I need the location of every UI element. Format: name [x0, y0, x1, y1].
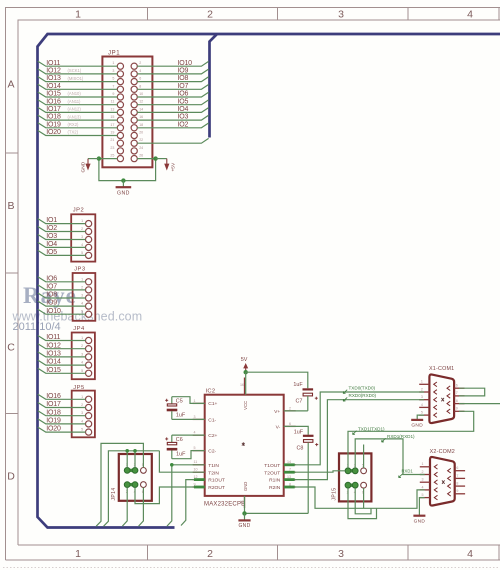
wire IO15 (bus tap to JP4 pin 5) — [38, 367, 86, 374]
wire IO8 (bus tap to JP3 pin 3) — [38, 292, 86, 299]
svg-text:17: 17 — [110, 123, 114, 127]
capacitor C5 — [165, 397, 205, 420]
svg-text:IO9: IO9 — [178, 68, 189, 75]
svg-text:IO13: IO13 — [46, 351, 61, 358]
wire IO6 (JP1 pin to bus tap) — [137, 91, 209, 98]
svg-text:IO17: IO17 — [46, 401, 61, 408]
svg-text:IO9: IO9 — [46, 300, 57, 307]
svg-text:+5V: +5V — [171, 162, 177, 171]
wire JP15 pin6 drop — [363, 488, 365, 508]
wire IO3 (bus tap to JP2 pin 3) — [38, 233, 86, 240]
wire IO19 (bus tap to JP1 pin) — [38, 121, 118, 128]
wire IC2 GND net — [245, 496, 309, 514]
svg-text:6: 6 — [289, 422, 291, 426]
svg-text:2: 2 — [421, 387, 423, 391]
connector JP3 — [73, 267, 96, 321]
svg-text:IO14: IO14 — [46, 359, 61, 366]
svg-text:D: D — [7, 471, 15, 483]
svg-text:5: 5 — [112, 77, 114, 81]
ground symbol GND (X2) — [413, 498, 425, 525]
svg-text:JP3: JP3 — [74, 267, 86, 273]
svg-text:1uF: 1uF — [176, 452, 186, 458]
op-amp/IC U1: IC2 MAX232 body — [204, 389, 284, 508]
svg-text:C2+: C2+ — [208, 433, 217, 439]
svg-text:1: 1 — [75, 548, 81, 560]
wire net B: T2IN / JP14 pins 1,3 to bus — [104, 451, 160, 526]
svg-text:IO16: IO16 — [46, 98, 61, 105]
bus B2 (vertical right of JP1) — [210, 34, 218, 138]
wire X1 pin8 to edge — [459, 403, 500, 405]
wire IO7 (bus tap to JP3 pin 2) — [38, 284, 86, 291]
junction under JP1 right — [153, 156, 157, 160]
svg-text:C: C — [7, 342, 15, 354]
wire IO16 (bus tap to JP5 pin 1) — [38, 393, 86, 400]
connector JP14 (jumper block) — [111, 454, 152, 501]
svg-text:(TX2): (TX2) — [68, 130, 79, 135]
svg-text:IO3: IO3 — [46, 233, 57, 240]
wire IO12 (bus tap to JP4 pin 2) — [38, 342, 86, 349]
svg-text:3: 3 — [112, 69, 114, 73]
svg-text:C5: C5 — [176, 398, 183, 404]
wire IO11 (bus tap to JP4 pin 1) — [38, 334, 86, 341]
connector X2-COM2 (DB9) — [420, 449, 465, 506]
svg-text:7: 7 — [112, 84, 114, 88]
svg-text:IO2: IO2 — [178, 121, 189, 128]
wire IO7 (JP1 pin to bus tap) — [137, 83, 209, 90]
svg-text:8: 8 — [139, 84, 141, 88]
svg-text:5: 5 — [194, 446, 196, 450]
wire T2OUT (IC2 to JP15 pin1) — [284, 471, 345, 472]
svg-text:5: 5 — [81, 251, 83, 255]
wire JP14 pin1 drop — [126, 451, 128, 468]
svg-text:JP5: JP5 — [73, 385, 85, 391]
svg-text:IO7: IO7 — [46, 284, 57, 291]
svg-text:14: 14 — [139, 107, 143, 111]
svg-text:R2OUT: R2OUT — [208, 485, 225, 491]
wire IO8 (JP1 pin to bus tap) — [137, 75, 209, 82]
label RXD0 — [343, 393, 376, 401]
svg-text:6: 6 — [139, 77, 141, 81]
svg-text:IO4: IO4 — [178, 106, 189, 113]
svg-text:T1OUT: T1OUT — [264, 463, 280, 469]
wire RXD1 (JP15 pin3 to X2 pin2) — [355, 439, 425, 475]
svg-text:(MISO1): (MISO1) — [68, 76, 84, 81]
svg-text:15: 15 — [240, 500, 244, 504]
wire IO10 (JP1 pin to bus tap) — [137, 60, 209, 67]
wire R1OUT (IC2 to bus) — [181, 480, 205, 526]
svg-text:T2IN: T2IN — [208, 470, 219, 476]
wire IO19 (bus tap to JP5 pin 4) — [38, 418, 86, 425]
svg-text:2: 2 — [81, 403, 83, 407]
label RXD1 at X2 pin — [399, 469, 414, 478]
svg-text:8: 8 — [456, 481, 458, 485]
svg-text:1uF: 1uF — [176, 412, 186, 418]
wire IO11 (bus tap to JP1 pin) — [38, 60, 118, 67]
frame column numbers — [75, 9, 473, 561]
wire IO13 (bus tap to JP1 pin) — [38, 75, 118, 82]
wire T2IN (net B to IC2) — [159, 451, 204, 472]
wire JP15 pin5 stub — [363, 445, 365, 468]
svg-text:26: 26 — [139, 154, 143, 158]
svg-text:5: 5 — [421, 411, 423, 415]
svg-text:(SCK1): (SCK1) — [68, 68, 82, 73]
wire JP15 pin4 loop — [355, 488, 371, 514]
svg-text:2: 2 — [289, 406, 291, 410]
svg-text:2: 2 — [81, 285, 83, 289]
svg-text:IO11: IO11 — [46, 334, 60, 341]
svg-text:T2OUT: T2OUT — [264, 470, 280, 476]
svg-text:JP15: JP15 — [331, 488, 337, 501]
wire IO18 (bus tap to JP5 pin 3) — [38, 409, 86, 416]
wire IO5 (bus tap to JP2 pin 5) — [38, 249, 86, 256]
svg-text:C2-: C2- — [208, 449, 216, 455]
connector JP1 — [102, 51, 152, 168]
svg-text:IC2: IC2 — [206, 389, 216, 395]
wire JP15 pin2 loop — [348, 488, 377, 518]
svg-text:TXD1(TXD1): TXD1(TXD1) — [358, 426, 385, 431]
svg-text:20: 20 — [139, 131, 143, 135]
svg-text:GND: GND — [238, 523, 250, 529]
svg-text:IO15: IO15 — [46, 91, 61, 98]
svg-text:3: 3 — [338, 548, 344, 560]
svg-text:1: 1 — [81, 219, 83, 223]
svg-text:R2IN: R2IN — [269, 485, 281, 491]
ground symbol GND (X1) — [411, 415, 424, 429]
svg-text:IO5: IO5 — [46, 249, 57, 256]
svg-text:B: B — [7, 200, 14, 212]
svg-text:IO8: IO8 — [46, 292, 57, 299]
capacitor C6 — [165, 435, 205, 459]
svg-text:IO18: IO18 — [46, 409, 61, 416]
svg-text:7: 7 — [456, 391, 458, 395]
svg-text:GND: GND — [411, 423, 423, 429]
svg-text:GND: GND — [81, 161, 87, 172]
svg-text:8: 8 — [456, 399, 458, 403]
svg-text:JP14: JP14 — [111, 488, 117, 501]
ground symbol GND (under JP1) — [116, 181, 132, 197]
svg-text:10: 10 — [194, 468, 198, 472]
svg-text:4: 4 — [467, 548, 473, 560]
svg-text:10: 10 — [139, 92, 143, 96]
svg-text:TXD0(TXD0): TXD0(TXD0) — [349, 385, 376, 390]
wire IO13 (bus tap to JP4 pin 3) — [38, 351, 86, 358]
wire IO4 (JP1 pin to bus tap) — [137, 106, 209, 113]
supply arrow GND (left of JP1 bottom) — [81, 159, 99, 173]
junction under JP1 left — [97, 156, 101, 160]
svg-text:1: 1 — [421, 380, 423, 384]
svg-text:RXD0(RXD0): RXD0(RXD0) — [349, 393, 377, 398]
wire IO20 (bus tap to JP5 pin 5) — [38, 426, 86, 433]
svg-text:T1IN: T1IN — [208, 463, 219, 469]
wire T1IN (C6/IC2 to bus) — [167, 465, 205, 526]
capacitor C8 — [284, 426, 319, 513]
svg-text:4: 4 — [139, 69, 141, 73]
svg-text:3: 3 — [81, 352, 83, 356]
svg-text:2: 2 — [139, 61, 141, 65]
svg-text:1: 1 — [75, 9, 81, 21]
label TXD1 — [353, 426, 385, 434]
svg-text:5: 5 — [422, 493, 424, 497]
svg-text:IO13: IO13 — [46, 75, 61, 82]
svg-text:A: A — [7, 79, 14, 91]
svg-text:3: 3 — [421, 395, 423, 399]
svg-text:11: 11 — [111, 100, 115, 104]
svg-text:4: 4 — [81, 302, 83, 306]
wire IO20 (bus tap to JP1 pin) — [38, 129, 118, 136]
svg-text:VCC: VCC — [243, 401, 248, 410]
svg-text:3: 3 — [81, 294, 83, 298]
svg-text:IO17: IO17 — [46, 106, 61, 113]
IC2 pin stubs and numbers — [193, 378, 296, 509]
svg-text:4: 4 — [81, 419, 83, 423]
wire GND loop under JP1 — [99, 159, 156, 181]
connector JP15 (jumper block) — [331, 453, 371, 501]
wire IO18 (bus tap to JP1 pin) — [38, 114, 118, 121]
svg-text:(AN13): (AN13) — [68, 114, 82, 119]
connector X1-COM1 (DB9) — [419, 366, 464, 423]
svg-text:4: 4 — [81, 361, 83, 365]
svg-text:1uF: 1uF — [293, 382, 303, 388]
svg-text:6: 6 — [456, 384, 458, 388]
connector JP2 — [71, 208, 95, 262]
svg-text:C6: C6 — [176, 437, 183, 443]
svg-text:5: 5 — [81, 428, 83, 432]
svg-text:2: 2 — [207, 9, 213, 21]
wire IO17 (bus tap to JP1 pin) — [38, 106, 118, 113]
svg-text:C7: C7 — [296, 399, 303, 405]
svg-text:X2-COM2: X2-COM2 — [430, 449, 455, 455]
svg-text:IO20: IO20 — [46, 129, 61, 136]
wire IO14 (bus tap to JP4 pin 4) — [38, 359, 86, 366]
svg-text:13: 13 — [110, 107, 114, 111]
svg-text:V-: V- — [276, 424, 281, 430]
capacitor C7 — [246, 372, 318, 411]
svg-text:4: 4 — [467, 9, 473, 21]
svg-text:3: 3 — [81, 235, 83, 239]
svg-text:(AN12): (AN12) — [68, 107, 82, 112]
node VCC junction — [244, 370, 248, 374]
svg-text:IO2: IO2 — [46, 225, 57, 232]
svg-text:IO6: IO6 — [178, 91, 189, 98]
wire IO14 (bus tap to JP1 pin) — [38, 83, 118, 90]
svg-text:R1OUT: R1OUT — [208, 478, 225, 484]
svg-text:9: 9 — [456, 407, 458, 411]
bus B1 (left/top/bottom) — [38, 34, 500, 528]
svg-text:3: 3 — [81, 411, 83, 415]
svg-text:(RX2): (RX2) — [68, 122, 80, 127]
svg-text:9: 9 — [112, 92, 114, 96]
junction on net B at JP14 pin1 — [125, 449, 129, 453]
svg-text:IO8: IO8 — [178, 75, 189, 82]
label TXD0 — [343, 385, 375, 393]
svg-text:1: 1 — [81, 277, 83, 281]
svg-text:7: 7 — [456, 474, 458, 478]
wire IO2 (JP1 pin to bus tap) — [137, 121, 209, 128]
wire IO9 (bus tap to JP3 pin 4) — [38, 300, 86, 307]
svg-text:GND: GND — [243, 482, 248, 491]
svg-text:2: 2 — [81, 227, 83, 231]
svg-text:GND: GND — [117, 191, 130, 197]
svg-text:IO1: IO1 — [46, 217, 57, 224]
supply symbol +5V (above IC2) — [241, 357, 248, 372]
svg-text:1: 1 — [422, 462, 424, 466]
svg-text:16: 16 — [240, 383, 244, 387]
svg-text:IO7: IO7 — [178, 83, 189, 90]
wire JP14 pin6 to bus — [139, 488, 144, 527]
svg-text:1: 1 — [81, 336, 83, 340]
svg-text:IO20: IO20 — [46, 426, 61, 433]
connector JP5 — [72, 385, 95, 438]
svg-text:1uF: 1uF — [294, 430, 304, 436]
wire RXD0 (R1IN to X1 pin3) — [284, 400, 424, 480]
svg-text:4: 4 — [422, 485, 424, 489]
junction on net B at JP14 pin3 — [133, 449, 137, 453]
svg-text:3: 3 — [422, 478, 424, 482]
svg-text:24: 24 — [139, 146, 143, 150]
svg-text:3: 3 — [338, 9, 344, 21]
wire TXD1 (X1 pin9 / JP15 pin1 / T2OUT) — [348, 411, 474, 468]
svg-text:JP4: JP4 — [73, 326, 85, 332]
wire R2IN (IC2 to X2 pin4) — [284, 487, 425, 508]
wire X1 pins 6-7 loop — [459, 388, 485, 396]
svg-text:IO16: IO16 — [46, 393, 61, 400]
wire IO2 (bus tap to JP2 pin 2) — [38, 225, 86, 232]
svg-text:IO15: IO15 — [46, 367, 61, 374]
wire IO1 (JP1 pin to bus end tap) — [137, 138, 209, 143]
wire VCC to IC pin16 — [245, 372, 247, 395]
junction GND center — [121, 178, 125, 182]
connector JP4 — [72, 326, 95, 379]
wire IO5 (JP1 pin to bus tap) — [137, 98, 209, 105]
svg-text:C1+: C1+ — [208, 401, 217, 407]
svg-text:11: 11 — [194, 460, 198, 464]
wire JP14 pin2 to bus — [122, 488, 127, 527]
svg-text:23: 23 — [110, 146, 114, 150]
svg-text:V+: V+ — [274, 409, 280, 415]
svg-text:4: 4 — [194, 431, 196, 435]
junction T1IN at C6 — [170, 463, 174, 467]
svg-text:X1-COM1: X1-COM1 — [429, 366, 454, 372]
svg-text:IO6: IO6 — [46, 275, 57, 282]
svg-text:(AN11): (AN11) — [68, 99, 82, 104]
svg-text:1: 1 — [194, 399, 196, 403]
wire R2OUT (JP14 pin4 to IC2) — [135, 487, 205, 504]
svg-text:C1-: C1- — [208, 417, 216, 423]
wire TXD0 (T1OUT to X1 pin2) — [284, 392, 424, 465]
svg-text:IO4: IO4 — [46, 241, 57, 248]
svg-text:15: 15 — [110, 115, 114, 119]
wire IO3 (JP1 pin to bus tap) — [137, 114, 209, 121]
wire IO4 (bus tap to JP2 pin 4) — [38, 241, 86, 248]
label RXD1 — [382, 434, 415, 442]
wire IO9 (JP1 pin to bus tap) — [137, 68, 209, 75]
svg-text:2: 2 — [207, 548, 213, 560]
svg-text:16: 16 — [139, 115, 143, 119]
ground symbol GND (under IC2) — [238, 513, 250, 528]
svg-text:IO12: IO12 — [46, 342, 61, 349]
svg-text:IO5: IO5 — [178, 98, 189, 105]
svg-text:1: 1 — [112, 61, 114, 65]
wire IO16 (bus tap to JP1 pin) — [38, 98, 118, 105]
svg-text:IO10: IO10 — [46, 308, 61, 315]
svg-text:RXD1: RXD1 — [402, 469, 414, 474]
wire IO17 (bus tap to JP5 pin 2) — [38, 401, 86, 408]
wire net A: JP14 pin5 to bus — [96, 443, 143, 526]
wire JP14 pin3 drop — [134, 451, 136, 468]
svg-text:6: 6 — [456, 466, 458, 470]
svg-text:5: 5 — [81, 310, 83, 314]
wire IO6 (bus tap to JP3 pin 1) — [38, 275, 86, 282]
svg-text:IO19: IO19 — [46, 418, 61, 425]
svg-text:5: 5 — [81, 369, 83, 373]
svg-text:IO3: IO3 — [178, 114, 189, 121]
svg-text:1: 1 — [81, 395, 83, 399]
svg-text:C8: C8 — [297, 445, 304, 451]
svg-text:22: 22 — [139, 138, 143, 142]
svg-text:JP2: JP2 — [73, 208, 85, 214]
svg-text:4: 4 — [421, 403, 423, 407]
svg-text:IO14: IO14 — [46, 83, 61, 90]
svg-text:12: 12 — [139, 100, 143, 104]
wire IO15 (bus tap to JP1 pin) — [38, 91, 118, 98]
svg-text:9: 9 — [456, 489, 458, 493]
svg-text:IO12: IO12 — [46, 68, 61, 75]
wire IO1 (bus tap to JP2 pin 1) — [38, 217, 86, 224]
svg-text:IO10: IO10 — [178, 60, 193, 67]
svg-text:21: 21 — [110, 138, 114, 142]
svg-text:19: 19 — [110, 131, 114, 135]
wire IO10 (bus tap to JP3 pin 5) — [38, 308, 86, 315]
svg-text:18: 18 — [139, 123, 143, 127]
svg-text:JP1: JP1 — [108, 51, 120, 57]
svg-text:GND: GND — [414, 519, 426, 525]
svg-text:(AN10): (AN10) — [68, 91, 82, 96]
svg-text:IO18: IO18 — [46, 114, 61, 121]
supply arrow +5V (right of JP1 bottom) — [156, 159, 177, 172]
junction GND under IC2 — [242, 511, 246, 515]
svg-text:IO11: IO11 — [46, 60, 60, 67]
svg-text:R1IN: R1IN — [269, 478, 281, 484]
svg-text:2: 2 — [422, 470, 424, 474]
svg-text:3: 3 — [194, 415, 196, 419]
svg-text:4: 4 — [81, 243, 83, 247]
svg-text:RXD1(RXD1): RXD1(RXD1) — [387, 434, 415, 439]
svg-text:2: 2 — [81, 344, 83, 348]
svg-text:5V: 5V — [241, 357, 248, 363]
wire IO12 (bus tap to JP1 pin) — [38, 68, 118, 75]
svg-text:IO19: IO19 — [46, 121, 61, 128]
frame row letters — [7, 79, 15, 483]
svg-text:25: 25 — [110, 154, 114, 158]
